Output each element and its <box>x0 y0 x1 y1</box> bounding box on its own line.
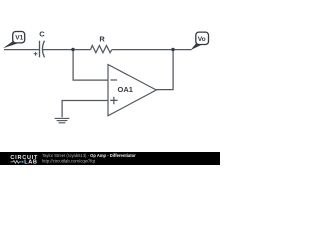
svg-text:V1: V1 <box>15 35 23 42</box>
svg-text:R: R <box>99 35 105 44</box>
svg-text:Taylor Street (royab513) - Op: Taylor Street (royab513) - Op Amp - Diff… <box>42 153 136 158</box>
svg-text:Vo: Vo <box>198 36 206 43</box>
svg-text:http://circuitlab.com/cqw7fqt: http://circuitlab.com/cqw7fqt <box>42 159 96 164</box>
svg-text:C: C <box>39 30 45 39</box>
svg-text:LAB: LAB <box>24 160 37 165</box>
svg-text:OA1: OA1 <box>118 85 133 94</box>
